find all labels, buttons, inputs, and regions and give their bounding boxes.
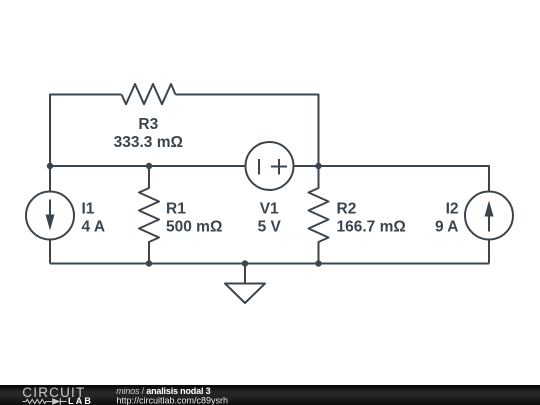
svg-text:R3: R3: [138, 116, 158, 133]
svg-text:4 A: 4 A: [82, 218, 106, 235]
svg-text:R2: R2: [337, 200, 357, 217]
svg-text:R1: R1: [166, 200, 186, 217]
svg-text:http://circuitlab.com/c89ysrh: http://circuitlab.com/c89ysrh: [117, 396, 229, 405]
svg-text:I1: I1: [82, 200, 95, 217]
svg-text:V1: V1: [260, 200, 279, 217]
svg-text:I2: I2: [446, 200, 459, 217]
svg-text:9 A: 9 A: [435, 218, 459, 235]
svg-text:333.3 mΩ: 333.3 mΩ: [114, 134, 183, 151]
svg-text:166.7 mΩ: 166.7 mΩ: [337, 218, 406, 235]
svg-text:LAB: LAB: [68, 396, 93, 405]
svg-text:500 mΩ: 500 mΩ: [166, 218, 222, 235]
svg-text:5 V: 5 V: [258, 218, 282, 235]
